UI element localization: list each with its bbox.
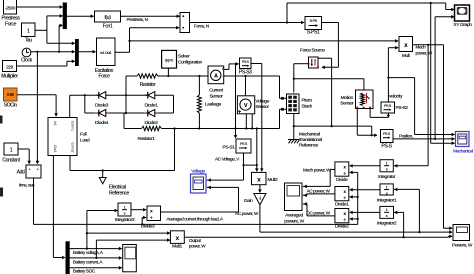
wire battery current into Mult1 in2 (96, 239, 169, 241)
mux Mux2 (76, 40, 79, 66)
wire mech power down into Integrator input (427, 45, 429, 166)
converter block PS-S (381, 130, 394, 143)
wire AC voltage from PS-S1 to Mult2 in1 and Voltage scope (243, 153, 245, 180)
wire averaged mech power from Divide to Averaged powers scope in1 (330, 168, 335, 170)
wire Constant to Add (18, 148, 29, 150)
wire Integrator1 output to Divide1 (350, 189, 380, 191)
wire AC voltage into Voltage scope in1 (207, 179, 244, 181)
mechanical translational reference symbol (288, 139, 300, 141)
svg-text:PS S: PS S (384, 104, 392, 108)
svg-text:PS-S3: PS-S3 (239, 70, 252, 76)
svg-text:Integrator1: Integrator1 (377, 197, 397, 203)
svg-text:S PS: S PS (310, 19, 318, 23)
svg-text:Add: Add (17, 170, 25, 176)
svg-text:PS S: PS S (242, 60, 250, 64)
svg-text:Mult2: Mult2 (268, 177, 279, 183)
wire bottom electrical rail with Resistor1 (124, 128, 142, 130)
svg-text:Resistor: Resistor (140, 82, 156, 88)
svg-text:Clock: Clock (21, 58, 33, 64)
svg-text:Mechanical: Mechanical (453, 148, 473, 153)
integrator block Integrator (380, 160, 393, 172)
wire averaged DC power from Divide2 to Averaged powers scope in3 (307, 215, 335, 217)
wire averaged current from Divide3 to Voltage scope in2 (161, 211, 239, 213)
mux Mux1 (63, 3, 66, 29)
wire battery SOC (69, 267, 121, 269)
svg-text:S-PS1: S-PS1 (307, 30, 320, 36)
wire Integrator2 output to Divide2 (350, 211, 380, 213)
wire bridge right column joining row1 and row2 (173, 95, 175, 113)
svg-text:Divide2: Divide2 (335, 224, 349, 230)
constant block 1 (Constant) (4, 143, 18, 155)
wire averaged AC power from Divide1 to Averaged powers scope in2 (307, 193, 335, 195)
wire time signal to divide chain (33, 178, 35, 224)
wire long force signal rail to Mult in1 (130, 40, 399, 42)
diode Diode2 (146, 112, 148, 114)
resistor Resistor on sensing rail (126, 75, 137, 77)
wire AC power into Integrator1 input (394, 188, 419, 190)
wire DC power into Integrator2 input (394, 211, 404, 213)
sum block (adds prestress + excitation) (180, 13, 190, 33)
wire mechanical rod to motion sensor top (294, 78, 364, 80)
svg-text:Integrator: Integrator (378, 174, 396, 180)
wire Mux1 to Fcn1 (66, 15, 93, 17)
wire averaged current into Voltage scope in2 (207, 186, 239, 188)
wire Excitation Force Out1 up to Sum in2 and long force rail (115, 51, 130, 53)
svg-text:Reference: Reference (109, 190, 129, 196)
svg-text:Diode4: Diode4 (95, 120, 109, 126)
scope block Voltage (blue) (191, 174, 207, 193)
wire solver configuration down to electrical node (167, 68, 169, 76)
svg-text:time, sec: time, sec (19, 183, 35, 188)
svg-text:In1 Out1: In1 Out1 (100, 51, 111, 55)
wire force source case port to mechanical reference rail (318, 57, 332, 59)
wire Force N: Sum to S-PS1, branch up to top rail (190, 22, 305, 24)
svg-text:0.95: 0.95 (7, 92, 15, 97)
svg-text:Averaged: Averaged (285, 213, 303, 219)
wire ground rail (69, 156, 71, 171)
wire Integrator output to Divide (350, 165, 380, 167)
wire Mux2 to Excitation Force In1 (78, 51, 95, 53)
svg-text:Tau: Tau (25, 38, 33, 44)
wire top rail force signal to XY Graph in1 (286, 3, 288, 23)
divide block Divide1 (335, 187, 349, 201)
svg-text:velocity: velocity (389, 94, 403, 100)
svg-text:PS S: PS S (383, 132, 391, 136)
svg-text:PS-S: PS-S (381, 144, 392, 150)
svg-text:AC Voltage, V: AC Voltage, V (215, 156, 240, 161)
gain block Gain -1 (triangle) (254, 194, 266, 205)
converter block S-PS1 (305, 17, 322, 30)
svg-text:Load: Load (80, 138, 90, 144)
wire Clock to Mux2 in2, branch up to Mux1 in3, branch down to Add (31, 51, 75, 53)
svg-text:XY Graph: XY Graph (453, 22, 472, 28)
wire time into Divide1 divisor (357, 196, 359, 198)
wire voltage sensor - down to bottom electrical rail (245, 114, 247, 129)
constant block 1 (Tau) (22, 23, 36, 37)
svg-text:Diode3: Diode3 (95, 102, 109, 108)
solver configuration block f(x)=0 (162, 50, 177, 68)
wire voltage sensor + to sensing rail (245, 76, 247, 96)
wire Full Load Out1 down to battery demux (52, 156, 54, 258)
subsystem block Excitation Force (97, 38, 116, 66)
svg-text:Configuration: Configuration (178, 60, 203, 66)
wire velocity signal up to Mult in2 and branch to Mechanical scope in1 (387, 48, 389, 102)
wire voltage sensor PS output stub to rail (251, 114, 253, 129)
svg-text:Divide3: Divide3 (141, 224, 155, 230)
svg-text:Mechanical: Mechanical (299, 131, 320, 137)
cropped block at left edge (0, 116, 3, 124)
svg-text:Mult1: Mult1 (172, 244, 183, 250)
svg-text:1: 1 (10, 148, 13, 154)
function block Fcn1 f(u) (95, 11, 121, 22)
svg-text:Translational: Translational (299, 137, 322, 143)
scope block XY Graph (455, 5, 470, 21)
product block Mult2 (252, 172, 267, 184)
svg-text:Full: Full (80, 132, 87, 138)
wire time into Divide divisor (350, 171, 358, 173)
wire Mult2 to Gain (259, 185, 261, 193)
svg-text:Force Source: Force Source (300, 47, 325, 53)
wire 229 to Mux2 in3 (17, 65, 67, 67)
wire mech power from Mult to Powers scope in1 and Integrator (413, 44, 444, 46)
svg-text:Battery current, A: Battery current, A (73, 259, 103, 264)
subsystem block Full Load (48, 118, 77, 156)
wire main electrical node down through diode bridge column (125, 76, 127, 113)
wire piezo electrical + port to current sensor rail (280, 97, 287, 99)
wire force signal down right side to Mechanical scope in3 (430, 3, 432, 143)
wire motion sensor position port to PS-S (356, 109, 358, 136)
piezo stack block (287, 94, 300, 114)
svg-text:Conn2: Conn2 (71, 143, 75, 153)
svg-text:Sensor: Sensor (340, 101, 354, 107)
converter block PS-S2 (381, 102, 395, 113)
svg-text:Stack: Stack (302, 104, 313, 110)
svg-text:AC power, W: AC power, W (307, 188, 331, 193)
svg-text:Resistor1: Resistor1 (137, 136, 155, 142)
resistor Leakage (vertical) (198, 76, 200, 95)
scope block Mechanical (blue) (456, 132, 470, 147)
svg-text:Fcn1: Fcn1 (103, 24, 113, 30)
constant block 0.95 (SOCin) orange (4, 88, 18, 101)
scope block Battery (123, 245, 137, 272)
svg-text:power, W: power, W (189, 244, 206, 249)
force source block (ideal force source) (309, 57, 319, 68)
svg-text:Voltage: Voltage (256, 98, 270, 104)
svg-text:Divide: Divide (336, 177, 348, 183)
clock block (22, 48, 31, 57)
wire battery voltage into Mult1 in1 (87, 232, 170, 234)
converter block PS-S3 (240, 58, 252, 69)
scope block Averaged powers W (285, 183, 303, 211)
wire Integrator3 output to Divide3 (131, 209, 146, 211)
svg-text:Force: Force (98, 73, 110, 79)
svg-text:f(x)=0: f(x)=0 (165, 58, 173, 62)
svg-text:power, W: power, W (416, 51, 433, 56)
svg-text:Integrator2: Integrator2 (377, 220, 397, 226)
svg-text:PS S: PS S (240, 142, 248, 146)
svg-text:Battery voltage, A: Battery voltage, A (73, 250, 104, 255)
integrator block Integrator3 (118, 203, 131, 216)
svg-text:SOCin: SOCin (4, 103, 18, 109)
svg-text:PS-S2: PS-S2 (396, 105, 409, 111)
divide block Divide (335, 162, 349, 176)
cropped block at left edge lower (0, 188, 3, 197)
svg-text:Sensor: Sensor (256, 104, 270, 110)
svg-text:powers, W: powers, W (284, 219, 304, 225)
wire Tau to Mux1 in2 and Mux2 in1 (35, 29, 47, 31)
svg-text:AC power, W: AC power, W (235, 211, 259, 216)
wire battery voltage branch up to Integrator3 (86, 211, 88, 234)
current sensor block (208, 66, 224, 84)
svg-text:229: 229 (6, 65, 13, 70)
wire piezo mechanical bottom port to translational reference (293, 114, 295, 140)
svg-text:1: 1 (27, 29, 30, 35)
svg-text:DC power, W: DC power, W (307, 210, 331, 215)
product block Mult1 (output power) (170, 231, 184, 244)
product block Mult (mech power) (399, 37, 413, 52)
wire Position signal to Mechanical scope in2 and up to XY Graph in2 (393, 138, 455, 140)
svg-text:Integrator3: Integrator3 (115, 217, 135, 223)
divide block Divide3 (147, 206, 161, 221)
svg-text:Mult: Mult (402, 53, 411, 59)
wire PS-S3 current signal down to Mult2 in2 (251, 63, 262, 65)
svg-text:Diode1: Diode1 (144, 102, 158, 108)
wire battery voltage A (69, 248, 121, 250)
wire DC output power from Mult1 to Powers scope in3 (184, 236, 448, 238)
svg-text:Constant: Constant (2, 158, 20, 164)
svg-text:Powers, W: Powers, W (452, 242, 473, 248)
svg-text:Conn1: Conn1 (71, 121, 75, 131)
svg-text:Prestress, N: Prestress, N (127, 17, 148, 22)
wire bridge row2 left link down to bottom rail (123, 113, 125, 129)
svg-text:Out1: Out1 (53, 145, 57, 152)
svg-text:Sensor: Sensor (209, 93, 223, 99)
wire Prestress N: Fcn1 to Sum (121, 15, 180, 17)
diode Diode3 (97, 94, 99, 96)
svg-text:Divide1: Divide1 (335, 201, 349, 207)
wire battery current A (69, 257, 121, 259)
svg-text:Multiplier: Multiplier (1, 74, 18, 80)
constant block -2500 (Prestress Force) (4, 0, 17, 14)
svg-text:Gain: Gain (244, 198, 253, 204)
svg-text:Current: Current (209, 88, 224, 94)
converter block PS-S1 (236, 139, 251, 153)
scope block Powers W (453, 225, 470, 241)
wire motion sensor velocity port to PS-S2 (369, 109, 371, 118)
voltage sensor block (237, 96, 254, 114)
svg-text:f(u): f(u) (104, 15, 111, 21)
svg-text:In1: In1 (53, 121, 57, 126)
wire piezo electrical - port to bottom electrical rail (280, 108, 287, 110)
wire bottom rail down leg to ground rail (174, 129, 176, 171)
wire diode row1 rail (70, 94, 174, 96)
svg-text:Battery SOC: Battery SOC (73, 269, 96, 274)
svg-text:Mech power, W: Mech power, W (303, 167, 331, 172)
svg-text:Piezo: Piezo (302, 98, 313, 104)
ground electrical reference symbol (102, 171, 104, 178)
svg-text:-2500: -2500 (5, 5, 16, 10)
demux for battery signals (66, 242, 69, 274)
svg-text:Leakage: Leakage (205, 101, 222, 107)
wire SOCin to Full Load In1 (17, 94, 56, 96)
svg-text:Motion: Motion (341, 95, 354, 101)
svg-text:PS-S1: PS-S1 (222, 145, 235, 151)
wire force source to piezo stack top port (294, 63, 309, 65)
wire -2500 to Mux1 in1 (17, 6, 63, 8)
wire diode row2 rail (85, 112, 174, 114)
svg-text:Reference: Reference (299, 142, 319, 148)
wire current sensor signal to PS-S3, junction branch down to PS-S1 (224, 68, 229, 70)
svg-text:Voltage: Voltage (191, 169, 205, 175)
constant block 229 (Multiplier) (3, 61, 17, 72)
svg-text:Averaged current through load,: Averaged current through load, A (167, 216, 224, 221)
svg-text:Solver: Solver (178, 54, 190, 60)
svg-text:Mech: Mech (416, 45, 427, 50)
wire row1 to Full Load Conn1 (69, 95, 71, 117)
divide block Divide2 (335, 209, 349, 223)
svg-text:Force: Force (5, 22, 17, 28)
wire bridge left column row1-row2 (84, 95, 86, 113)
svg-text:A: A (214, 74, 218, 80)
sum block Add (26, 165, 41, 178)
wire time branch up into Divide3 divisor (141, 223, 143, 225)
diode Diode4 (97, 112, 99, 114)
wire time into Divide2 divisor (357, 218, 359, 220)
svg-text:Position,: Position, (399, 133, 413, 138)
motion sensor block (356, 90, 374, 109)
wire AC power from Gain to Powers scope in2 and Integrator1 (259, 205, 261, 232)
diode Diode1 (146, 94, 148, 96)
integrator block Integrator2 (380, 206, 394, 218)
svg-text:Force, N: Force, N (194, 23, 209, 28)
integrator block Integrator1 (380, 184, 393, 195)
svg-text:Output: Output (189, 238, 202, 243)
wire mechanical reference rail to PS-S position sensor row (294, 125, 372, 127)
wire rail tap down into Mult2 in1 (256, 129, 258, 172)
wire S-PS1 to Force Source input (322, 22, 339, 24)
